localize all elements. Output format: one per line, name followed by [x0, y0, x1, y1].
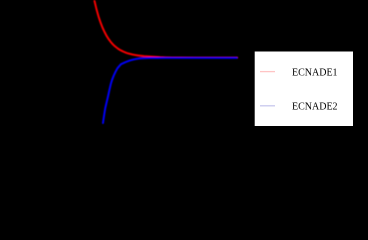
legend box [254, 51, 353, 127]
svg-text:ECNADE1: ECNADE1 [292, 67, 338, 78]
plot canvas [0, 0, 368, 160]
curve ECNADE1 (red, decays from top to asymptote) [95, 1, 238, 58]
legend sample line ECNADE2 [260, 105, 275, 107]
legend sample line ECNADE1 [260, 71, 275, 73]
svg-text:ECNADE2: ECNADE2 [292, 101, 338, 112]
curve ECNADE2 (blue, rises from below to asymptote) [103, 58, 237, 123]
